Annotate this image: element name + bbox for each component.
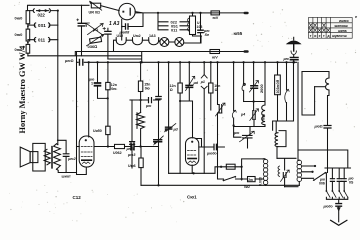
wire	[27, 41, 29, 44]
svg-text:0ю: 0ю	[111, 87, 116, 91]
svg-text:Uи50: Uи50	[93, 129, 102, 133]
tube CL2	[79, 136, 94, 167]
capacitor C1	[97, 62, 99, 82]
svg-text:шуапотш: шуапотш	[332, 34, 347, 38]
tap wires	[158, 13, 190, 30]
coil L3	[264, 62, 266, 105]
wire tube CL2 top	[88, 62, 90, 137]
svg-text:C12: C12	[73, 195, 82, 200]
series capacitor C-bus	[80, 60, 83, 66]
svg-text:0ю: 0ю	[145, 86, 150, 90]
svg-text:и: и	[314, 34, 316, 38]
resistor R-sel2	[26, 29, 30, 41]
wire tube anode to rail	[135, 12, 200, 13]
capacitor C6 series thick	[131, 143, 134, 149]
svg-text:µ1: µ1	[200, 80, 205, 84]
resistor R3	[179, 62, 181, 83]
junction dots rail	[157, 12, 159, 14]
svg-text:036Ω: 036Ω	[88, 44, 98, 49]
junction rail bus	[141, 61, 143, 63]
wire	[27, 24, 29, 29]
secondary bottom lead	[57, 169, 77, 172]
svg-text:т: т	[310, 34, 312, 38]
svg-text:µю2: µю2	[67, 157, 76, 161]
resistor UM50	[106, 126, 110, 134]
junction	[240, 166, 242, 168]
speaker loop	[33, 143, 45, 171]
junction dot	[139, 145, 141, 147]
VC7 curved plate bumps	[278, 166, 280, 177]
switch row y179	[218, 167, 248, 179]
junction	[121, 26, 123, 28]
node tap 150	[28, 23, 58, 27]
svg-text:µd: µd	[173, 128, 179, 132]
svg-text:µ4: µ4	[240, 112, 245, 116]
row y126.5	[234, 126, 265, 128]
tube anode bar	[129, 8, 131, 15]
capacitor C-ne	[200, 13, 202, 30]
secondary top lead	[57, 143, 58, 146]
svg-text:0ю0: 0ю0	[15, 47, 24, 52]
wire to tube	[101, 6, 120, 11]
switch S3	[224, 177, 236, 181]
switch hook S4	[243, 62, 245, 83]
coil L5 circles	[263, 159, 267, 184]
svg-text:8.000: 8.000	[258, 177, 262, 186]
thermistor UR	[91, 3, 100, 8]
svg-text:022: 022	[38, 13, 46, 18]
svg-text:µю3: µю3	[127, 153, 136, 157]
svg-text:006: 006	[319, 182, 325, 186]
capacitor C9	[324, 126, 331, 129]
svg-text:108: 108	[197, 25, 203, 29]
electrolytic capacitor C-el	[77, 19, 79, 21]
capacitor C8	[199, 146, 225, 148]
main bus wire	[77, 61, 297, 63]
osc transformer T2 winding circles	[297, 160, 302, 181]
coupling cap CG	[336, 204, 342, 207]
svg-text:т: т	[323, 34, 325, 38]
wire tube cathode down	[121, 19, 123, 40]
wire selector vertical	[57, 11, 59, 145]
heater bump2	[133, 38, 143, 45]
oscillator coil box	[302, 72, 329, 79]
svg-text:е: е	[355, 14, 358, 19]
speaker	[20, 147, 30, 167]
wire vertical x76.5	[76, 52, 78, 175]
svg-text:шиот: шиот	[62, 175, 72, 179]
trimmer VC5b	[253, 111, 255, 120]
lamp L1	[160, 38, 169, 47]
transformer core	[51, 146, 52, 168]
switch contacts bank	[326, 191, 347, 197]
svg-text:1 A3: 1 A3	[109, 21, 120, 27]
terminal pin bottom	[244, 50, 249, 53]
capacitor C-hf	[122, 13, 143, 26]
row y121	[273, 121, 294, 130]
cap CB2	[337, 179, 341, 182]
wire antenna bus drops	[294, 62, 299, 150]
svg-text:µю: µю	[145, 104, 152, 108]
terminal pin top	[244, 12, 249, 15]
resistor R-sel3	[26, 44, 30, 53]
resistor R-0360 slanted	[90, 37, 102, 43]
IF transformer B winding	[275, 121, 277, 133]
resistor R8b	[248, 177, 256, 182]
svg-text:Horny Maestro GW W/4: Horny Maestro GW W/4	[18, 46, 27, 134]
svg-text:е: е	[319, 34, 321, 38]
switch S2	[314, 173, 326, 181]
wire lamp to riser	[184, 36, 201, 43]
svg-text:µю0о: µю0о	[323, 204, 334, 208]
junction selector chain dots	[27, 26, 29, 28]
wire x158.5	[158, 62, 160, 96]
switch S-b diagonal 2	[88, 23, 104, 34]
switch S-b diagonal	[86, 23, 104, 35]
capacitor C3	[130, 142, 135, 145]
svg-text:µюΩ: µюΩ	[64, 59, 73, 63]
tube CF1 bottom wire	[191, 165, 193, 173]
svg-text:U42: U42	[117, 34, 124, 38]
tube cathode dot	[122, 11, 124, 13]
svg-text:0S1: 0S1	[38, 23, 46, 28]
antenna	[293, 37, 295, 40]
resistor R6 horizontal	[115, 144, 125, 148]
coil zigzag L1	[137, 113, 145, 147]
svg-text:µd: µd	[193, 81, 199, 85]
svg-text:Ω: Ω	[170, 88, 173, 92]
svg-text:303ю0Я: 303ю0Я	[276, 79, 280, 93]
trimmer C5	[253, 62, 255, 85]
jack pair symbol	[203, 62, 205, 74]
variable capacitor VC2	[188, 62, 190, 85]
capacitor C-b	[103, 27, 105, 29]
variable capacitor VC1	[154, 140, 162, 142]
capacitor C2 series	[149, 98, 152, 103]
svg-text:µю: µю	[233, 131, 240, 135]
wire x168.6 long	[168, 62, 170, 173]
svg-text:2ю: 2ю	[248, 178, 253, 182]
rectifier tube 1A3	[119, 3, 135, 19]
wire y150 row	[298, 150, 348, 168]
bottom rail y185.3	[141, 184, 299, 186]
resistor R8a	[226, 164, 235, 169]
wire x233.6	[233, 62, 235, 125]
trimmer VC6	[243, 135, 253, 138]
VC7 tuning cap	[283, 173, 286, 178]
wire x299	[297, 150, 299, 161]
fuse F2	[210, 50, 220, 54]
svg-text:0S: 0S	[349, 181, 354, 185]
wire to terminal	[220, 12, 244, 14]
heater bump3	[149, 38, 159, 45]
svg-text:µю: µю	[283, 57, 290, 61]
svg-text:µю0о: µю0о	[206, 152, 217, 156]
variable resistor VR2 hook	[286, 62, 288, 90]
svg-text:806: 806	[261, 114, 265, 120]
resistor R2	[140, 62, 142, 81]
antenna capacitor	[290, 58, 298, 60]
resistor R-sel1	[26, 11, 30, 24]
switch table	[309, 18, 353, 39]
output transformer primary zigzag	[44, 149, 50, 165]
fuse F1	[201, 12, 212, 14]
tube CF1	[186, 138, 199, 166]
resistor R4	[210, 62, 212, 83]
junction	[107, 145, 109, 147]
antenna plug hook	[291, 51, 296, 54]
svg-text:юV: юV	[213, 16, 219, 20]
svg-text:ю55: ю55	[234, 31, 243, 36]
table X marks row3	[309, 29, 329, 32]
wire resistor top	[192, 13, 194, 16]
wire resistor bottom	[193, 35, 202, 37]
wire top rail left	[28, 5, 90, 10]
wire	[27, 53, 29, 56]
svg-text:UR 0Ω: UR 0Ω	[89, 11, 101, 15]
svg-text:Uю6: Uю6	[128, 164, 136, 168]
svg-text:0ю0: 0ю0	[15, 32, 24, 37]
svg-text:011: 011	[38, 38, 46, 43]
dropping resistor U108 tapped	[190, 16, 196, 35]
heater bump1	[116, 38, 126, 45]
resistor R1	[107, 62, 109, 82]
heater chain wire	[114, 40, 117, 51]
svg-text:2000: 2000	[259, 84, 264, 93]
svg-text:1: 1	[91, 82, 93, 86]
detector row wire	[130, 99, 160, 101]
svg-text:µΩ: µΩ	[92, 28, 98, 32]
svg-text:011: 011	[171, 28, 178, 33]
wire	[169, 41, 175, 43]
svg-text:Cю1: Cю1	[187, 195, 197, 200]
svg-text:0и2: 0и2	[244, 185, 250, 189]
resistor R7	[140, 147, 142, 159]
resistor R5 tall	[277, 62, 279, 75]
capacitor C7 feed	[58, 140, 66, 153]
svg-text:ишюо: ишюо	[339, 19, 349, 23]
svg-text:Uю2: Uю2	[133, 34, 141, 38]
node tap 220 arrow	[30, 9, 58, 13]
wire join	[326, 197, 347, 203]
wire x326.4	[325, 173, 327, 191]
wire x132 down	[131, 100, 133, 141]
svg-text:Sе: Sе	[205, 33, 210, 37]
cap CB1	[330, 179, 334, 182]
cap bank top rail	[325, 167, 351, 169]
capacitor C7	[63, 154, 69, 157]
grid row wire	[94, 146, 115, 148]
svg-text:0ю0: 0ю0	[15, 15, 24, 20]
svg-text:µюΩ: µюΩ	[314, 124, 323, 128]
bottom link	[285, 186, 298, 188]
junction	[107, 97, 109, 99]
lamp L2	[175, 38, 184, 47]
ground arrow	[338, 206, 340, 222]
svg-text:U062: U062	[113, 151, 122, 155]
coil L5 bracket	[242, 159, 264, 180]
bottom row y173.3	[169, 167, 242, 174]
T2 taps	[302, 166, 315, 178]
wire to terminal2	[220, 51, 244, 53]
capacitor C4	[156, 97, 161, 100]
variable resistor VR1 hook	[232, 110, 236, 118]
trimmer VC8 on x168.6	[166, 127, 172, 129]
coil L2 bumps	[326, 78, 329, 90]
transformer secondary zigzag	[54, 144, 61, 169]
ground chevron	[331, 220, 347, 225]
svg-text:юV: юV	[212, 56, 218, 60]
wire x233 stub	[234, 127, 241, 138]
cap CB3	[342, 179, 346, 182]
variable cap VC4	[218, 62, 220, 104]
junction dots on bus	[88, 61, 288, 63]
junction	[157, 184, 159, 186]
table X marks row2	[309, 24, 325, 28]
svg-text:шапоаш: шапоаш	[335, 24, 348, 28]
node tap 110	[28, 38, 58, 42]
svg-text:1A3: 1A3	[149, 34, 156, 38]
wire bottom rail left	[28, 52, 210, 63]
svg-text:шипа: шипа	[338, 29, 347, 33]
row y101.5	[244, 101, 265, 103]
